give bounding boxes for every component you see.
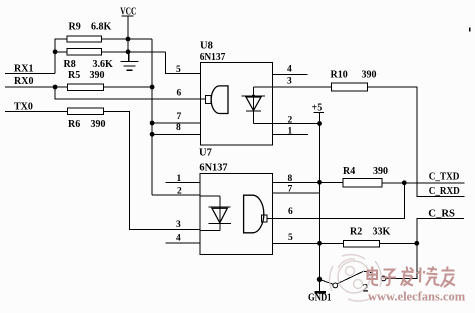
switch S2 contact b <box>381 276 386 281</box>
wire U8 pin3 to R10 <box>273 86 332 88</box>
wire R2 down to switch <box>386 243 417 278</box>
wire R9 left <box>55 38 67 40</box>
node VCC/R9 junction <box>126 37 131 42</box>
wire U8 pin4 stub <box>273 74 308 76</box>
ground GND1 <box>314 291 326 293</box>
resistor R5 <box>68 84 104 90</box>
watermark stamp swirl <box>330 255 382 301</box>
svg-text:R2: R2 <box>350 227 362 238</box>
svg-text:3: 3 <box>287 76 292 86</box>
svg-text:VCC: VCC <box>120 6 136 17</box>
wire line B to U8 pin5 (R8 net) <box>165 52 200 74</box>
wire RX0 <box>5 86 68 88</box>
wire R8 right to line B <box>102 51 166 53</box>
svg-text:8: 8 <box>176 123 181 133</box>
svg-text:R5: R5 <box>68 70 80 81</box>
svg-text:3: 3 <box>176 220 181 230</box>
switch S2 contact a <box>333 283 338 288</box>
svg-text:4: 4 <box>287 65 292 75</box>
char 电 <box>368 267 379 286</box>
+5 power symbol <box>314 113 324 292</box>
svg-text:C_RS: C_RS <box>428 208 455 219</box>
svg-text:R10: R10 <box>331 70 348 81</box>
wire U7 pin8 to +5 rail <box>273 181 320 183</box>
svg-text:33K: 33K <box>373 227 391 238</box>
node R4/pin6 junction <box>402 180 407 185</box>
U7 output gate (faces right) <box>244 195 267 233</box>
wire U7 pin4 stub <box>165 242 200 244</box>
svg-text:+5: +5 <box>312 103 323 114</box>
switch S2 lever tip dash <box>364 271 373 272</box>
op-amp U8 body box <box>200 63 272 145</box>
wire R6 right down to U7 pin3 <box>104 111 201 229</box>
svg-text:6N137: 6N137 <box>199 162 227 173</box>
wire R4 right to C_TXD <box>382 182 465 184</box>
node line A / R5 junction <box>150 85 155 90</box>
svg-text:5: 5 <box>176 65 181 75</box>
svg-text:4: 4 <box>176 233 181 243</box>
svg-text:6N137: 6N137 <box>200 52 226 63</box>
node R2/C_RS junction <box>414 241 419 246</box>
wire R10 to C_RXD corner <box>368 87 465 197</box>
wire U7 pin7 jog to +5 rail <box>273 192 320 194</box>
U7 internal LED diode <box>200 196 231 231</box>
wire C_RS <box>417 219 464 244</box>
wire line A vertical (R9 net) <box>151 39 153 195</box>
svg-text:6: 6 <box>177 88 182 98</box>
wire U7 pin6 up to R4 output <box>267 183 404 219</box>
svg-text:390: 390 <box>362 70 377 81</box>
node VCC/R8 junction <box>126 49 131 54</box>
watermark 电子发烧友 <box>368 267 456 288</box>
svg-text:U8: U8 <box>200 41 213 52</box>
node RX1/R8 junction <box>53 49 58 54</box>
wire U8 pin8 <box>152 133 200 135</box>
wire R2 right <box>380 242 417 244</box>
node pin8 junction <box>317 180 322 185</box>
svg-text:6: 6 <box>288 207 293 217</box>
wire U7 pin2 from line A <box>152 194 200 196</box>
node RX0 junction <box>53 85 58 90</box>
resistor R2 <box>344 241 380 247</box>
node pin5/+5 rail junction <box>317 241 322 246</box>
node line A / pin7 junction <box>150 121 155 126</box>
wire RX1 riser to R9/R8 <box>54 38 56 73</box>
stray mark top right <box>469 28 471 32</box>
svg-text:390: 390 <box>373 166 388 177</box>
svg-text:7: 7 <box>177 112 182 122</box>
svg-text:C_TXD: C_TXD <box>429 171 460 182</box>
node GND rail junction <box>317 277 322 282</box>
node line A / pin8 junction <box>150 132 155 137</box>
resistor R6 <box>68 108 104 114</box>
svg-text:TX0: TX0 <box>14 101 33 112</box>
resistor R4 <box>343 179 382 187</box>
resistor R9 <box>67 36 102 42</box>
VCC power symbol <box>121 16 133 53</box>
wire RX1 <box>5 72 55 74</box>
svg-text:390: 390 <box>91 119 106 130</box>
svg-text:www.elecfans.com: www.elecfans.com <box>368 290 466 304</box>
svg-text:R6: R6 <box>68 119 80 130</box>
wire U8 pin1 stub <box>273 134 309 136</box>
switch S2 lever <box>338 272 364 284</box>
svg-text:2: 2 <box>177 187 182 197</box>
op-amp U7 body box <box>200 174 273 255</box>
resistor R10 <box>332 83 368 91</box>
svg-text:R4: R4 <box>343 166 355 177</box>
svg-text:R9: R9 <box>69 22 81 33</box>
svg-text:R8: R8 <box>64 59 76 70</box>
wire R4 left <box>320 181 344 183</box>
svg-text:U7: U7 <box>199 148 212 159</box>
svg-text:6.8K: 6.8K <box>91 22 112 33</box>
wire RX0 drop to pin6 <box>55 87 205 99</box>
svg-text:GND1: GND1 <box>308 292 332 303</box>
U8 internal LED diode <box>242 87 273 123</box>
char 烧 <box>417 267 440 286</box>
wire R5 right to line A <box>104 86 153 88</box>
char 发 <box>401 267 414 286</box>
svg-text:5: 5 <box>288 233 293 243</box>
wire U7 pin5 to R2 <box>273 242 344 244</box>
char 友 <box>441 267 456 288</box>
resistor R8 <box>67 48 102 54</box>
wire U8 pin7 <box>152 122 200 124</box>
ground <box>121 52 139 71</box>
wire GND junction to switch contact <box>321 280 334 285</box>
char 子 <box>383 270 397 286</box>
wire U7 pin1 stub <box>165 182 200 184</box>
wire U8 pin2 to +5 <box>273 123 320 125</box>
svg-text:1: 1 <box>288 127 293 137</box>
wire R9 right to line A <box>102 38 153 40</box>
svg-text:3.6K: 3.6K <box>93 59 114 70</box>
wire TX0 <box>5 110 68 112</box>
node pin2/+5 junction <box>317 121 322 126</box>
svg-text:RX0: RX0 <box>14 76 33 87</box>
U8 output gate (faces left) <box>205 86 228 114</box>
svg-text:RX1: RX1 <box>14 64 33 75</box>
wire R8 left <box>55 51 67 53</box>
svg-text:390: 390 <box>90 70 105 81</box>
svg-text:C_RXD: C_RXD <box>429 186 460 197</box>
